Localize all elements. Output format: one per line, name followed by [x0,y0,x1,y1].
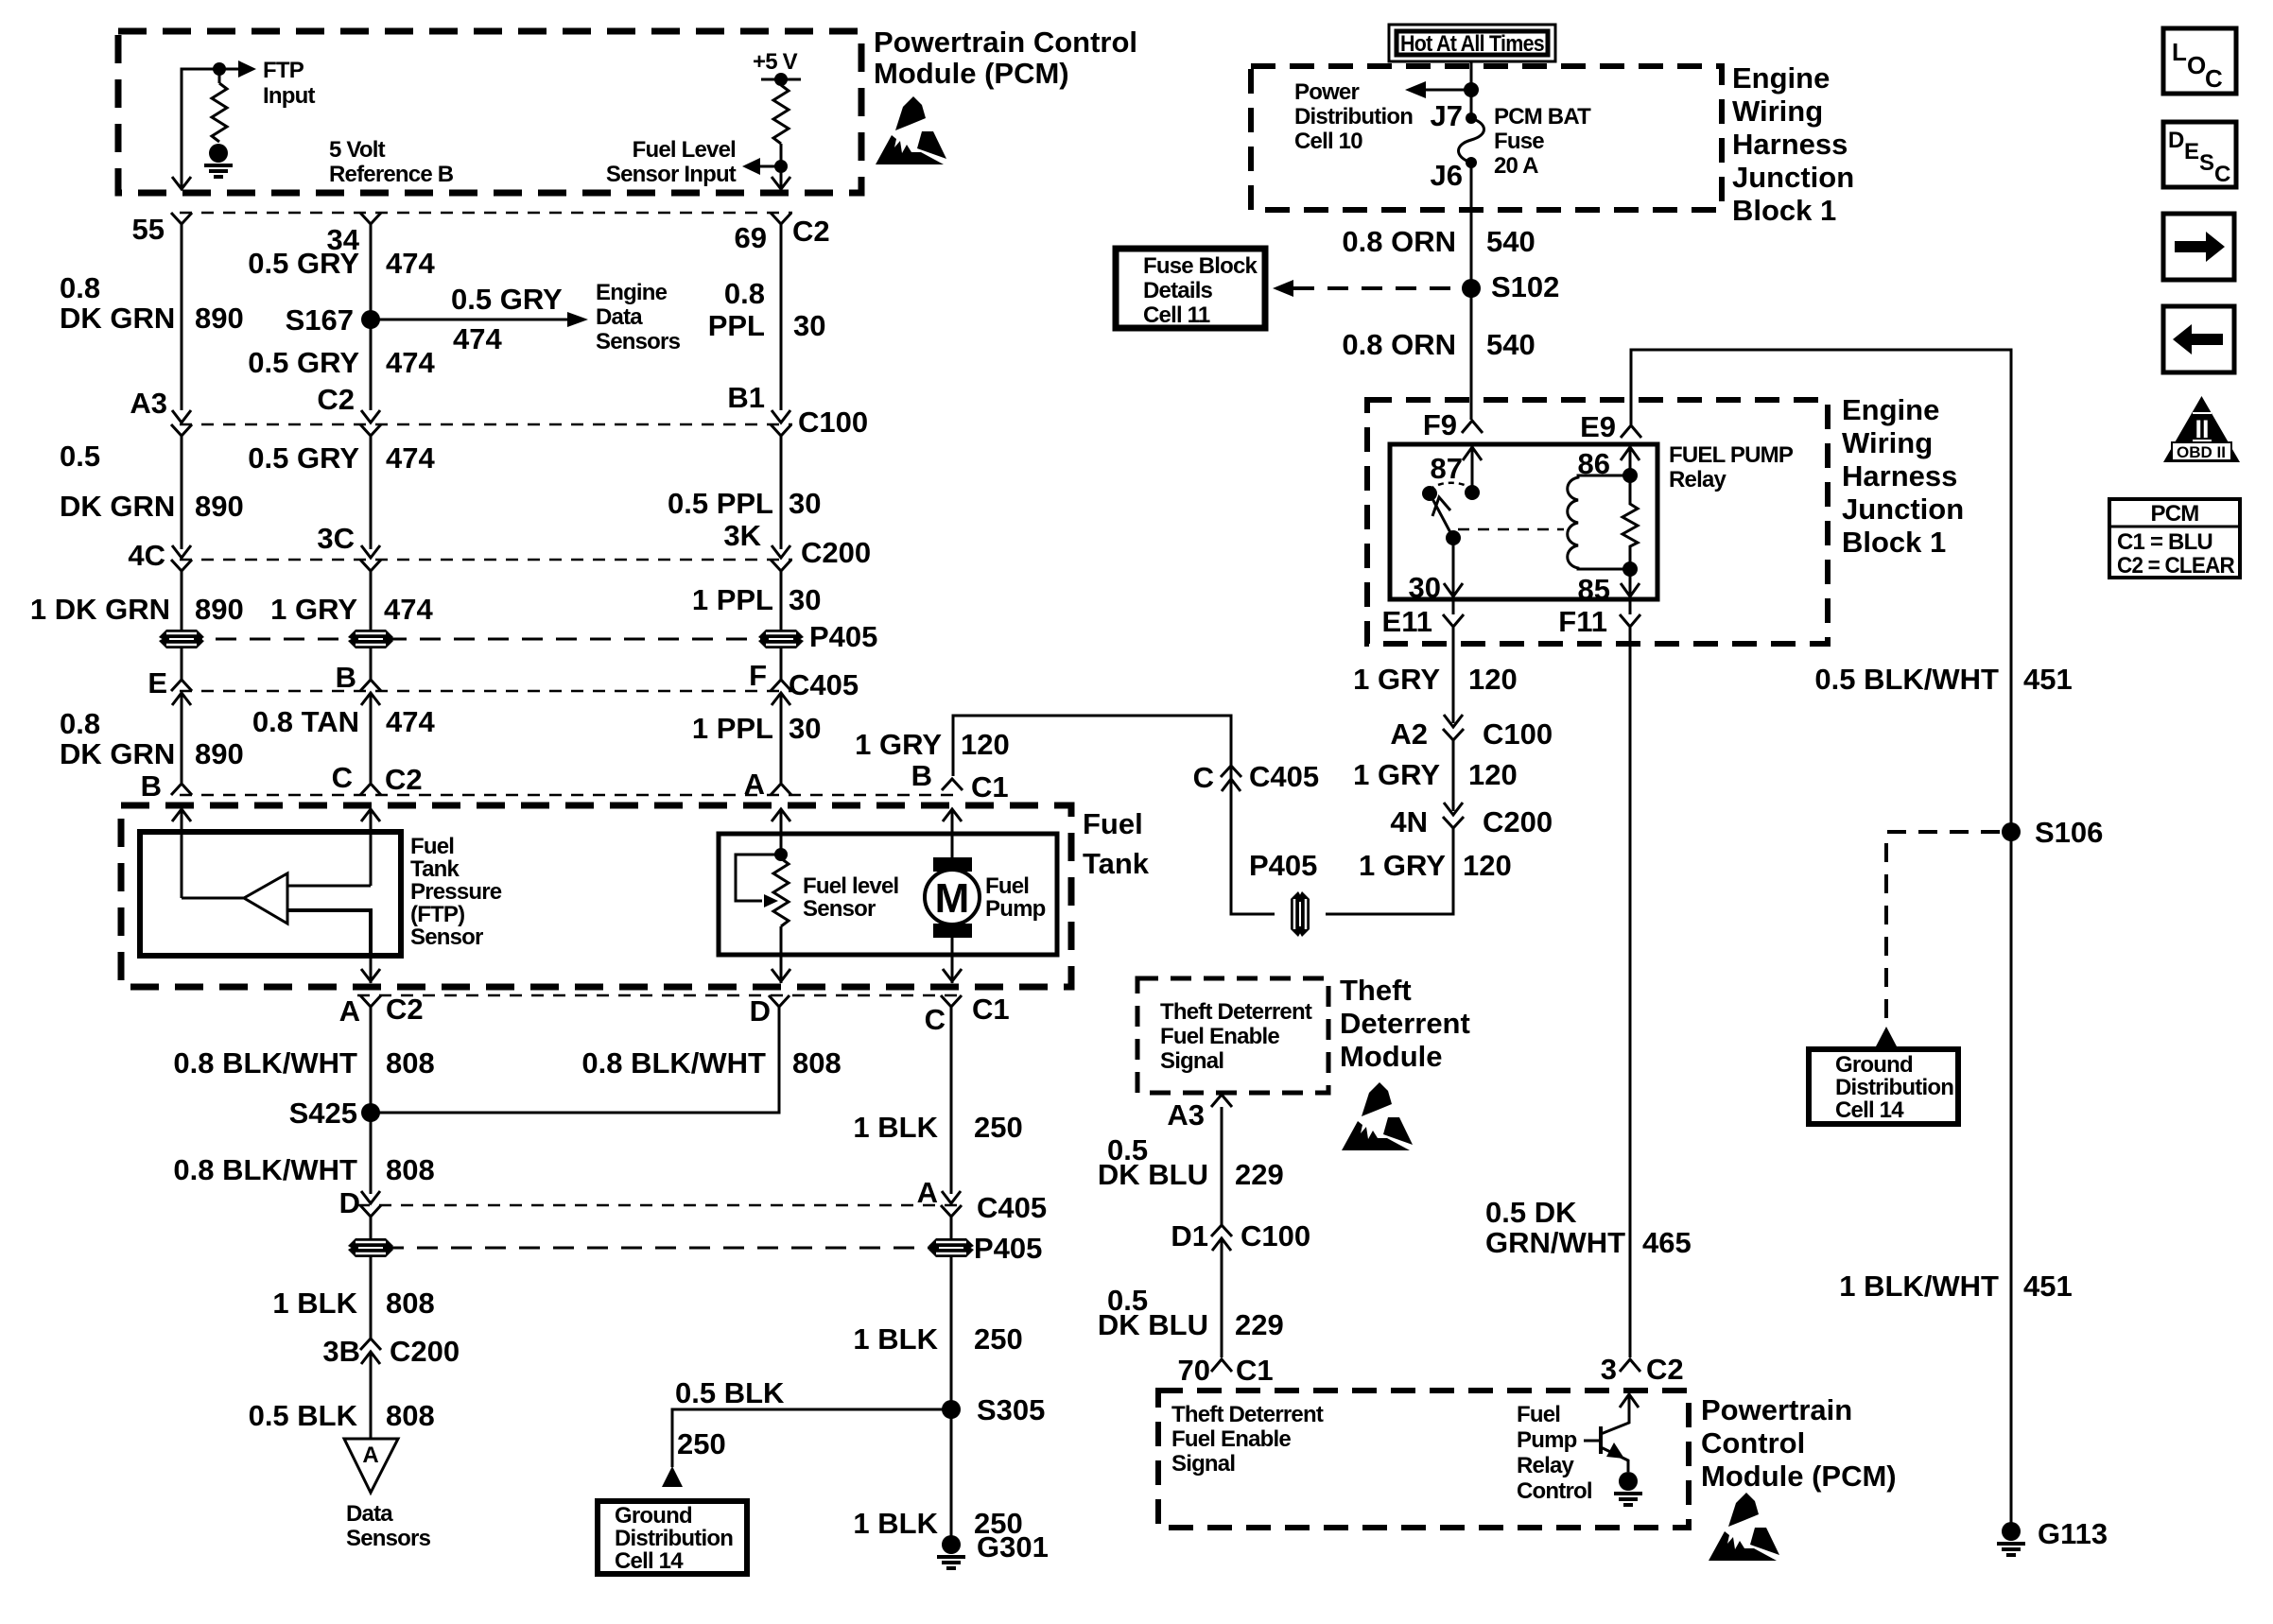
svg-text:C2: C2 [792,215,830,248]
arrow into ground distribution box [662,1466,683,1487]
svg-text:C1: C1 [972,993,1010,1026]
svg-text:C: C [2214,162,2230,187]
svg-text:Relay: Relay [1669,467,1726,492]
svg-text:Pump: Pump [1517,1427,1577,1453]
resistor R-FLS [773,85,789,144]
wire 474 segment 3 [370,571,373,628]
svg-text:0.5 GRY: 0.5 GRY [248,441,359,475]
ground G113 [1997,1522,2025,1555]
wire: E9 feed to S106 drop [1631,350,2011,1531]
svg-text:Powertrain: Powertrain [1701,1393,1852,1426]
wire 465 from F11 to PCM [1629,628,1632,1357]
op-amp triangle (FTP sensor) [244,873,287,924]
svg-text:Sensor: Sensor [410,924,483,950]
svg-text:890: 890 [195,593,244,626]
svg-text:1 GRY: 1 GRY [1353,758,1440,791]
relay K1 box [1390,444,1657,599]
svg-text:Engine: Engine [1732,61,1830,95]
inline connector P405 (middle wire) [370,628,373,651]
wire 474 segment 4 (TAN) [370,693,373,783]
svg-text:0.8 BLK/WHT: 0.8 BLK/WHT [173,1046,357,1080]
svg-text:E9: E9 [1580,410,1616,443]
wire 250 pump ground [950,1260,953,1545]
svg-text:S167: S167 [286,303,354,337]
svg-text:3K: 3K [723,519,761,552]
svg-text:F11: F11 [1558,605,1607,638]
wire 120 segment 4 to fuel pump [953,716,1275,914]
svg-text:Theft Deterrent: Theft Deterrent [1160,999,1312,1025]
svg-text:1 GRY: 1 GRY [1359,849,1446,882]
wire 808 below S425 [370,1113,373,1194]
svg-text:B1: B1 [727,381,765,414]
svg-text:Control: Control [1701,1426,1805,1460]
svg-text:120: 120 [1468,758,1518,791]
wire 120 from E11 [1452,628,1455,723]
svg-text:C405: C405 [1249,760,1319,793]
svg-text:Module (PCM): Module (PCM) [874,57,1069,90]
svg-text:Data: Data [346,1501,393,1527]
wire 229 segment 1 [1221,1107,1223,1225]
svg-text:Module: Module [1340,1040,1443,1073]
inline connector P405 (right) [950,1217,953,1260]
svg-text:Engine: Engine [1842,393,1939,426]
svg-text:Cell 14: Cell 14 [615,1548,684,1574]
connector row C2 (PCM) [180,212,792,215]
svg-text:D1: D1 [1171,1219,1208,1253]
inline connector P405 (pump feed) [1291,891,1310,937]
svg-text:J7: J7 [1431,99,1463,132]
svg-text:OBD II: OBD II [2177,443,2226,461]
svg-text:Power: Power [1294,79,1359,105]
svg-text:C200: C200 [1483,805,1553,838]
svg-text:1 PPL: 1 PPL [692,712,773,745]
connector row C1/C2 at fuel tank [180,794,961,797]
wire 890 segment 1 [181,224,183,410]
svg-text:229: 229 [1235,1158,1284,1191]
inline connector P405 (left) [370,1217,373,1260]
fuel level sensor potentiometer [774,848,788,861]
svg-text:C2: C2 [386,993,424,1026]
svg-text:Tank: Tank [1083,847,1150,880]
wire 120 segment 3 to P405 [1326,828,1453,914]
svg-text:Sensor: Sensor [803,896,876,922]
splice S167 [361,310,380,329]
svg-text:0.8: 0.8 [60,271,100,304]
svg-text:890: 890 [195,302,244,335]
svg-text:540: 540 [1486,328,1536,361]
sidebar icon arrow right [2163,214,2234,280]
Power Distribution junction block box [1251,66,1722,210]
svg-text:Wiring: Wiring [1842,426,1933,459]
svg-text:C405: C405 [789,668,859,701]
svg-text:S102: S102 [1491,270,1559,303]
svg-text:C100: C100 [1483,717,1553,751]
wire 30 segment 2 [780,436,783,549]
svg-text:0.5 BLK: 0.5 BLK [249,1399,358,1432]
svg-text:120: 120 [1463,849,1512,882]
connector row C100 [180,423,792,426]
svg-text:474: 474 [386,346,435,379]
svg-text:Fuse: Fuse [1494,129,1544,154]
svg-text:C2: C2 [385,763,423,796]
resistor R-FTP [212,83,227,142]
ESD symbol (PCM bottom) [1709,1493,1779,1561]
wire: FTP out of tank [370,956,373,983]
svg-text:Distribution: Distribution [1835,1075,1953,1100]
svg-text:4N: 4N [1390,805,1428,838]
svg-text:5 Volt: 5 Volt [329,137,386,163]
svg-text:474: 474 [386,705,435,738]
svg-text:Engine: Engine [596,280,668,305]
Fuse Block Details Cell 11 box [1116,249,1265,328]
svg-text:0.5 GRY: 0.5 GRY [451,283,563,316]
svg-text:229: 229 [1235,1308,1284,1341]
wire 808 from FTP ground [370,1007,373,1113]
svg-text:451: 451 [2023,1270,2073,1303]
svg-text:0.5 BLK: 0.5 BLK [675,1376,785,1409]
wire into tank (pump B) with up arrow [951,809,954,871]
svg-text:Sensor Input: Sensor Input [606,162,737,187]
svg-text:474: 474 [384,593,433,626]
svg-text:0.8 TAN: 0.8 TAN [252,705,359,738]
Fuel pump relay junction block box [1367,400,1828,644]
Hot At All Times box [1389,25,1555,61]
off-page triangle A (data sensors) [344,1439,398,1493]
svg-text:C2: C2 [1646,1353,1684,1386]
svg-text:1 DK GRN: 1 DK GRN [30,593,170,626]
svg-text:70: 70 [1178,1354,1210,1387]
svg-text:808: 808 [386,1287,435,1320]
branch arrow to power distribution [1426,89,1471,92]
svg-text:890: 890 [195,490,244,523]
FTP sensor box [140,832,401,956]
wire to ground distribution [672,1409,951,1467]
connector row C405 (bottom) [357,1204,961,1207]
svg-text:120: 120 [1468,663,1518,696]
wire 890 segment 2 [182,435,560,437]
arrow down at PCM pin 55 [172,177,191,189]
svg-text:S305: S305 [977,1393,1045,1426]
connector row C405 [180,690,792,693]
fuel sender inner box [719,834,1057,955]
Ground Distribution Cell 14 box (left) [598,1501,747,1574]
sidebar icon OBD II triangle [2163,396,2240,462]
relay dashed actuator link [1458,528,1564,531]
connector row below tank (C2/C1) [357,994,961,997]
junction dot FTP [213,62,226,76]
wire 474 segment 2 [370,436,373,549]
svg-text:GRN/WHT: GRN/WHT [1485,1226,1625,1259]
inline connector P405 (left wire) [181,628,183,651]
svg-text:Theft Deterrent: Theft Deterrent [1171,1402,1324,1427]
sidebar icon DESC [2163,122,2236,187]
svg-text:0.5 BLK/WHT: 0.5 BLK/WHT [1814,663,1999,696]
ground G301 [937,1535,965,1568]
svg-text:474: 474 [386,247,435,280]
svg-text:Ground: Ground [615,1503,692,1529]
svg-text:Sensors: Sensors [596,329,681,354]
svg-text:Fuse Block: Fuse Block [1143,253,1258,279]
svg-text:DK GRN: DK GRN [60,737,175,770]
svg-text:1 GRY: 1 GRY [855,728,942,761]
svg-text:Fuel Enable: Fuel Enable [1171,1426,1291,1452]
svg-text:0.8: 0.8 [60,707,100,740]
svg-text:F: F [749,659,767,692]
svg-text:C200: C200 [390,1335,460,1368]
sensor input arrowhead (left) [742,158,760,175]
wire 890 segment 3 [181,571,183,628]
dashed reference to fuse block details [1293,286,1471,290]
svg-text:D: D [339,1186,360,1219]
svg-text:D: D [2168,128,2184,153]
svg-text:P405: P405 [809,620,877,653]
svg-text:465: 465 [1642,1226,1692,1259]
wire 890 segment 4 [181,693,183,783]
svg-text:808: 808 [386,1046,435,1080]
svg-text:Module (PCM): Module (PCM) [1701,1460,1897,1493]
svg-text:E: E [147,666,167,700]
PCM module box (top left) [118,31,861,193]
wire 120 segment 2 [1452,740,1455,811]
svg-text:B: B [336,661,356,694]
svg-text:PPL: PPL [708,309,765,342]
Ground Distribution Cell 14 box (right) [1809,1049,1958,1124]
connector row C200 [180,559,792,561]
svg-text:S425: S425 [289,1097,357,1130]
svg-text:L: L [2172,38,2187,66]
ground (FTP pull-down) [204,144,233,177]
svg-text:C2: C2 [317,383,355,416]
svg-text:G301: G301 [977,1530,1049,1564]
svg-text:1 BLK: 1 BLK [853,1111,938,1144]
svg-text:Theft: Theft [1340,974,1412,1007]
wire to sensor input [760,144,781,189]
wire pump down [951,938,954,983]
svg-text:0.5 GRY: 0.5 GRY [248,247,359,280]
svg-text:A3: A3 [130,387,167,420]
transistor Q1 (relay driver) [1599,1426,1603,1454]
svg-text:Fuel level: Fuel level [803,873,898,899]
svg-text:C: C [2205,64,2223,93]
svg-text:Details: Details [1143,278,1213,303]
svg-text:C1 = BLU: C1 = BLU [2117,529,2212,555]
svg-text:Fuel: Fuel [985,873,1029,899]
wire 474 segment 1 [370,224,373,410]
svg-text:0.5 GRY: 0.5 GRY [248,346,359,379]
svg-text:Signal: Signal [1160,1048,1223,1074]
svg-text:A: A [917,1176,938,1209]
svg-text:DK BLU: DK BLU [1098,1308,1208,1341]
wire: S167 to engine data sensors [371,319,567,321]
svg-text:Fuel: Fuel [410,834,454,859]
svg-text:A2: A2 [1390,717,1428,751]
svg-text:87: 87 [1431,452,1463,485]
wire 540 segment 1 [1470,163,1473,288]
svg-text:Harness: Harness [1732,128,1848,161]
wire 30 segment 1 [780,224,783,410]
svg-text:1 GRY: 1 GRY [1353,663,1440,696]
wire 250 from fuel pump [950,1007,953,1194]
svg-text:J6: J6 [1431,159,1463,192]
svg-text:808: 808 [792,1046,842,1080]
svg-text:Ground: Ground [1835,1052,1913,1078]
svg-text:C100: C100 [798,406,868,439]
svg-text:85: 85 [1578,573,1610,606]
svg-text:Harness: Harness [1842,459,1957,492]
svg-text:250: 250 [677,1427,726,1460]
svg-text:Tank: Tank [410,856,460,882]
svg-text:0.5: 0.5 [60,440,100,473]
svg-text:20 A: 20 A [1494,153,1538,179]
svg-text:1 BLK: 1 BLK [272,1287,357,1320]
svg-text:C1: C1 [1236,1354,1274,1387]
svg-text:Fuel Level: Fuel Level [633,137,736,163]
splice S106 [2002,822,2021,841]
svg-text:Pump: Pump [985,896,1046,922]
wire 540 segment 2 [1470,288,1473,420]
ESD symbol (theft deterrent module) [1342,1082,1413,1150]
arrow down at PCM pin 69 [772,177,790,189]
svg-text:Powertrain Control: Powertrain Control [874,26,1137,59]
wire 808 below P405 [370,1260,373,1339]
sidebar icon arrow left [2163,306,2234,372]
svg-text:Hot At All Times: Hot At All Times [1400,31,1544,57]
relay internal resistor [1622,475,1638,569]
svg-text:3: 3 [1601,1353,1617,1386]
PCM connector legend box [2109,499,2240,578]
fuel tank box [121,805,1071,987]
svg-text:Input: Input [263,83,315,109]
svg-text:3B: 3B [322,1335,360,1368]
svg-text:C100: C100 [1241,1219,1310,1253]
splice S425 [361,1103,380,1122]
svg-text:FTP: FTP [263,58,304,83]
svg-text:0.8 BLK/WHT: 0.8 BLK/WHT [581,1046,766,1080]
splice S102 [1462,279,1481,298]
svg-text:Sensors: Sensors [346,1526,431,1551]
svg-text:0.8: 0.8 [724,277,765,310]
wire 30 segment 3 [780,571,783,628]
svg-text:30: 30 [789,583,821,616]
splice S305 [942,1400,961,1419]
svg-text:0.8 BLK/WHT: 0.8 BLK/WHT [173,1153,357,1186]
svg-text:Cell 14: Cell 14 [1835,1097,1904,1123]
svg-text:C: C [332,761,353,794]
svg-text:0.8 ORN: 0.8 ORN [1342,225,1456,258]
wire 30 segment 4 [780,693,783,783]
svg-text:A: A [744,768,765,801]
sidebar icon LOC [2163,28,2236,94]
svg-text:Control: Control [1517,1478,1592,1504]
svg-text:Cell 10: Cell 10 [1294,129,1362,154]
svg-text:Reference B: Reference B [329,162,454,187]
svg-text:Block 1: Block 1 [1842,526,1946,559]
svg-text:F9: F9 [1423,408,1457,441]
svg-text:B: B [911,759,932,792]
svg-text:Block 1: Block 1 [1732,194,1836,227]
wire 808 below C200 [370,1352,373,1439]
svg-text:C405: C405 [977,1191,1047,1224]
wire into tank (B) with up arrow [181,809,183,898]
svg-text:1 BLK: 1 BLK [853,1322,938,1356]
svg-text:S106: S106 [2035,816,2103,849]
PCM box (bottom) [1158,1391,1689,1528]
ESD symbol U1 [876,96,946,164]
wire from hot feed [1470,61,1473,118]
ground (transistor emitter) [1614,1472,1642,1505]
wire: FTP input pull-up branch [182,69,238,189]
svg-text:S: S [2199,150,2214,176]
svg-text:30: 30 [1409,571,1441,604]
inline connector P405 (right wire) [780,628,783,651]
svg-text:Wiring: Wiring [1732,95,1823,128]
svg-text:1 BLK: 1 BLK [853,1507,938,1540]
svg-text:30: 30 [789,487,821,520]
svg-text:Fuel: Fuel [1083,807,1143,840]
svg-text:Fuel Enable: Fuel Enable [1160,1024,1279,1049]
pass-through row P405 (bottom) [383,1247,934,1250]
svg-text:451: 451 [2023,663,2073,696]
svg-text:55: 55 [132,213,165,246]
wire into tank (C) with up arrow [370,809,373,886]
svg-text:0.5 DK: 0.5 DK [1485,1196,1577,1229]
svg-text:250: 250 [974,1111,1023,1144]
svg-text:Fuel: Fuel [1517,1402,1560,1427]
wire: triangle output to pin B [182,897,244,900]
+5V rail tick [761,79,801,85]
svg-text:0.8 ORN: 0.8 ORN [1342,328,1456,361]
svg-text:P405: P405 [974,1232,1042,1265]
svg-text:1 BLK/WHT: 1 BLK/WHT [1839,1270,1999,1303]
svg-text:Cell 11: Cell 11 [1143,302,1210,328]
svg-text:3C: 3C [317,522,355,555]
svg-text:Relay: Relay [1517,1453,1574,1478]
wire 229 segment 2 [1221,1238,1223,1357]
fuel pump motor M1 [933,857,972,872]
svg-text:C: C [925,1003,946,1036]
svg-text:PCM: PCM [2151,501,2199,527]
wire: top input from +5V ref [287,885,371,888]
svg-text:FUEL PUMP: FUEL PUMP [1669,442,1794,468]
svg-text:Pressure: Pressure [410,879,502,905]
svg-text:890: 890 [195,737,244,770]
svg-text:Signal: Signal [1171,1451,1235,1477]
wire fuel level sensor down [780,926,783,983]
svg-text:DK GRN: DK GRN [60,490,175,523]
relay coil [1568,475,1630,569]
svg-text:30: 30 [793,309,825,342]
svg-text:C1: C1 [971,770,1009,803]
svg-text:P405: P405 [1249,849,1317,882]
svg-text:Junction: Junction [1842,492,1964,526]
svg-text:Distribution: Distribution [1294,104,1413,130]
svg-text:PCM BAT: PCM BAT [1494,104,1591,130]
svg-text:A: A [362,1443,378,1468]
svg-text:C2 = CLEAR: C2 = CLEAR [2117,553,2234,579]
svg-text:4C: 4C [128,539,165,572]
svg-text:Data: Data [596,304,643,330]
svg-text:DK BLU: DK BLU [1098,1158,1208,1191]
svg-text:250: 250 [974,1322,1023,1356]
svg-text:120: 120 [961,728,1010,761]
svg-text:30: 30 [789,712,821,745]
svg-text:1 GRY: 1 GRY [270,593,357,626]
svg-text:474: 474 [386,441,435,475]
svg-text:C200: C200 [801,536,871,569]
svg-text:A: A [339,994,360,1028]
svg-text:69: 69 [735,221,767,254]
svg-text:D: D [750,994,771,1028]
